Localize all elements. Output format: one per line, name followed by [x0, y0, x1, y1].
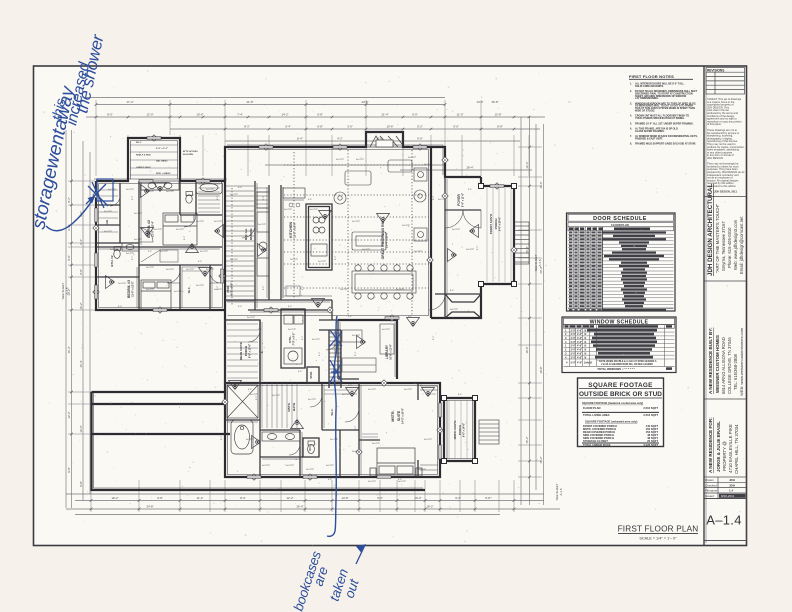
svg-text:6'-4": 6'-4"	[468, 189, 473, 191]
mudroom shelving	[226, 186, 254, 301]
svg-text:MSTR.: MSTR.	[391, 410, 395, 421]
svg-text:10'-6": 10'-6"	[386, 125, 393, 129]
svg-text:2x4 TYP: 2x4 TYP	[396, 289, 405, 291]
svg-text:8'-2": 8'-2"	[319, 351, 321, 356]
svg-text:8'-2": 8'-2"	[335, 255, 337, 260]
svg-text:9'-2": 9'-2"	[67, 197, 71, 203]
dimension number labels	[67, 100, 543, 509]
svg-text:Smyrna, Tennessee 37167: Smyrna, Tennessee 37167	[721, 221, 726, 271]
svg-text:2x4 TYP: 2x4 TYP	[200, 251, 209, 253]
svg-text:W.I.C.: W.I.C.	[330, 408, 334, 415]
svg-text:6'-0" x 14'-0": 6'-0" x 14'-0"	[463, 423, 466, 437]
svg-text:21'-8": 21'-8"	[246, 100, 253, 104]
svg-text:UTIL.: UTIL.	[288, 335, 292, 343]
svg-text:21'-4" x 26'-0": 21'-4" x 26'-0"	[386, 232, 389, 248]
sheet title: FIRST FLOOR PLAN	[618, 525, 699, 541]
svg-text:2x4 TYP: 2x4 TYP	[108, 189, 117, 191]
svg-text:12'-0": 12'-0"	[146, 113, 153, 117]
svg-text:7'-0" x 9'-2": 7'-0" x 9'-2"	[293, 333, 296, 346]
svg-text:8'-2": 8'-2"	[296, 455, 298, 460]
svg-text:10'-2": 10'-2"	[79, 302, 83, 309]
svg-text:6'-4": 6'-4"	[308, 199, 313, 201]
fireplace	[366, 132, 403, 147]
revisions box	[706, 68, 745, 95]
svg-text:MUDRM.: MUDRM.	[249, 228, 253, 240]
svg-text:STORAGE CLOSET: STORAGE CLOSET	[583, 439, 608, 443]
window symbols on walls	[95, 137, 504, 479]
svg-text:2x4 TYP: 2x4 TYP	[330, 439, 339, 441]
svg-text:6'-4": 6'-4"	[258, 329, 263, 331]
svg-text:JORGE & JULIE BRASIL: JORGE & JULIE BRASIL	[716, 421, 721, 472]
svg-text:15'-2": 15'-2"	[539, 456, 543, 463]
master tub	[231, 420, 253, 454]
svg-text:2x4 TYP: 2x4 TYP	[174, 291, 183, 293]
svg-text:6'-4": 6'-4"	[297, 137, 303, 141]
svg-text:6'-4": 6'-4"	[238, 187, 243, 189]
master vanity	[262, 432, 300, 441]
first floor notes block	[629, 74, 698, 146]
svg-text:TOTAL WINDOWS = * * * *: TOTAL WINDOWS = * * * * * *	[597, 367, 635, 371]
witness extension lines	[68, 100, 542, 512]
svg-text:Issued: Issued	[705, 494, 714, 498]
blue scribble over closet	[86, 182, 108, 208]
svg-text:* NOTE WHEN DOUBLE & A 2x10 AT: * NOTE WHEN DOUBLE & A 2x10 AT SPED HEAD…	[598, 360, 657, 363]
svg-text:2x4 TYP: 2x4 TYP	[404, 389, 413, 391]
door and window id diamonds	[93, 135, 517, 480]
svg-text:FOYER: FOYER	[457, 194, 461, 206]
svg-text:WEB: www.weisnercustomhomes.c: WEB: www.weisnercustomhomes.com	[739, 327, 744, 396]
sinks bedroom bath	[141, 181, 179, 190]
svg-text:JDH: JDH	[729, 478, 735, 482]
svg-text:2x4 TYP: 2x4 TYP	[214, 221, 223, 223]
svg-text:8'-2": 8'-2"	[477, 245, 479, 250]
svg-text:2x4 TYP: 2x4 TYP	[110, 249, 119, 251]
svg-text:DOOR SCHEDULE: DOOR SCHEDULE	[593, 216, 647, 222]
svg-text:Drawn: Drawn	[705, 478, 714, 482]
svg-text:LIBRARY: LIBRARY	[385, 344, 389, 359]
svg-text:3,026 SQFT: 3,026 SQFT	[643, 443, 658, 447]
svg-text:19'-8": 19'-8"	[539, 366, 543, 373]
WIC closet label blob	[136, 142, 171, 175]
svg-text:2x4 TYP: 2x4 TYP	[230, 194, 239, 196]
blue pen annotation layer	[28, 32, 365, 612]
svg-text:6'-4": 6'-4"	[198, 261, 203, 263]
svg-text:FINISHED & EAST KEPT.: FINISHED & EAST KEPT.	[635, 138, 663, 141]
svg-text:8'-2": 8'-2"	[132, 255, 134, 260]
svg-text:2x4 TYP: 2x4 TYP	[214, 289, 223, 291]
svg-text:12'-6": 12'-6"	[539, 181, 543, 188]
svg-text:6'-4": 6'-4"	[348, 316, 353, 318]
svg-text:2x4 TYP: 2x4 TYP	[368, 481, 377, 483]
svg-text:19'-8": 19'-8"	[525, 346, 529, 353]
svg-text:A NEW RESIDENCE FOR:: A NEW RESIDENCE FOR:	[708, 417, 713, 473]
svg-text:2x4 TYP: 2x4 TYP	[352, 451, 361, 453]
info table (drawn/checked/filename/issued)	[704, 477, 747, 499]
svg-text:24'-8": 24'-8"	[361, 100, 368, 104]
divider	[704, 398, 747, 400]
svg-text:2x4 TYP: 2x4 TYP	[352, 221, 361, 223]
svg-text:8'-2": 8'-2"	[132, 195, 134, 200]
svg-text:KITCHEN: KITCHEN	[289, 222, 293, 238]
svg-text:BATH: BATH	[292, 403, 296, 411]
svg-text:7'-4": 7'-4"	[237, 113, 243, 117]
svg-text:8'-2": 8'-2"	[433, 335, 435, 340]
svg-text:13'-2": 13'-2"	[111, 496, 118, 500]
dimension lines right	[520, 117, 522, 505]
svg-text:STOR.: STOR.	[310, 371, 313, 379]
svg-text:A-1.5: A-1.5	[559, 488, 563, 496]
svg-text:2x4 TYP: 2x4 TYP	[438, 199, 447, 201]
svg-text:36'-8": 36'-8"	[491, 100, 498, 104]
svg-text:A–1.4: A–1.4	[706, 513, 741, 528]
tub bath2	[196, 181, 222, 194]
svg-text:2x4 TYP: 2x4 TYP	[452, 229, 461, 231]
porch columns	[479, 184, 484, 189]
additional texture layer	[38, 70, 744, 542]
svg-text:11'-2" x 16'-8": 11'-2" x 16'-8"	[294, 222, 297, 238]
svg-text:2x4 TYP: 2x4 TYP	[310, 209, 319, 211]
svg-text:8'-2": 8'-2"	[263, 285, 265, 290]
small interior dim texts	[118, 187, 479, 481]
svg-text:12'-8": 12'-8"	[494, 113, 501, 117]
svg-text:YOUR OTHERS SPECIFICATION AT S: YOUR OTHERS SPECIFICATION AT SIDING.	[635, 117, 685, 120]
svg-text:18'-2": 18'-2"	[426, 505, 433, 509]
door schedule table	[567, 213, 676, 311]
svg-text:9'-2": 9'-2"	[455, 496, 461, 500]
svg-text:2x4 TYP: 2x4 TYP	[118, 283, 127, 285]
svg-text:2x4 TYP: 2x4 TYP	[186, 269, 195, 271]
svg-text:3.: 3.	[630, 102, 632, 105]
dimension lines bottom	[66, 493, 544, 495]
svg-text:WIDE OF STOOD.: WIDE OF STOOD.	[635, 109, 655, 112]
svg-text:FIRST FLOOR NOTES: FIRST FLOOR NOTES	[629, 74, 674, 79]
svg-text:2x4 TYP: 2x4 TYP	[466, 249, 475, 251]
svg-text:2 2x10-10 HEADER ROW DIA. ON S: 2 2x10-10 HEADER ROW DIA. ON SEE LEGEND	[601, 363, 653, 366]
kitchen counter detail	[284, 200, 332, 296]
svg-text:6'-4": 6'-4"	[328, 479, 333, 481]
svg-text:TEL: 615/368-2808: TEL: 615/368-2808	[733, 353, 738, 390]
svg-text:8'-2": 8'-2"	[441, 425, 443, 430]
svg-text:6'-4": 6'-4"	[79, 239, 83, 245]
wall inner face lines	[94, 141, 473, 489]
svg-text:6'-4": 6'-4"	[458, 394, 463, 396]
svg-text:2x4 TYP: 2x4 TYP	[286, 465, 295, 467]
svg-text:16'-4": 16'-4"	[67, 346, 71, 353]
wing top bath detail	[141, 190, 179, 262]
svg-text:2x4 TYP: 2x4 TYP	[418, 469, 427, 471]
svg-text:FRAMED WILD SUPPORT-LINED EACH: FRAMED WILD SUPPORT-LINED EACH SID AT ST…	[635, 143, 696, 146]
front porch steps	[479, 222, 529, 444]
svg-text:26'-4": 26'-4"	[296, 505, 303, 509]
svg-text:8'-8": 8'-8"	[67, 255, 71, 261]
svg-text:16'-4": 16'-4"	[79, 360, 83, 367]
svg-text:8'-2": 8'-2"	[244, 125, 250, 129]
svg-text:5.: 5.	[630, 122, 632, 125]
great room furniture	[334, 160, 427, 299]
svg-text:SOLID CORE MASONITE.: SOLID CORE MASONITE.	[635, 85, 664, 88]
svg-text:6'-4": 6'-4"	[298, 371, 303, 373]
dimension tick marks	[70, 103, 531, 510]
svg-text:MSTR.: MSTR.	[287, 402, 291, 411]
svg-text:Filename: Filename	[705, 489, 718, 493]
svg-text:2x4 TYP: 2x4 TYP	[414, 251, 423, 253]
svg-text:LAY DIMENSIONING.: LAY DIMENSIONING.	[635, 97, 659, 100]
svg-text:COLLEGE GROVE, TN 37046: COLLEGE GROVE, TN 37046	[727, 337, 732, 394]
long blue vertical line	[327, 316, 337, 536]
svg-text:TOTAL LIVING AREA: TOTAL LIVING AREA	[583, 413, 610, 417]
svg-text:JDH: JDH	[729, 483, 735, 487]
title block left border	[703, 66, 705, 546]
svg-text:GREAT RM./DINING RM.: GREAT RM./DINING RM.	[381, 221, 385, 260]
svg-text:Web: www.jdhdesign3.com: Web: www.jdhdesign3.com	[733, 219, 738, 270]
porch deck lines	[449, 188, 511, 459]
svg-text:6'-2" x 8'-0": 6'-2" x 8'-0"	[231, 283, 234, 296]
svg-text:BTH. #2: BTH. #2	[110, 255, 114, 267]
master shower	[227, 385, 258, 418]
svg-text:FLOOR PLAN: FLOOR PLAN	[583, 406, 601, 410]
svg-text:6'-4": 6'-4"	[248, 389, 253, 391]
door swing arcs	[110, 196, 481, 455]
svg-text:2x4 TYP: 2x4 TYP	[424, 439, 433, 441]
svg-text:A-1.5: A-1.5	[538, 259, 542, 267]
svg-text:JDH DESIGN.: JDH DESIGN.	[707, 156, 724, 160]
svg-text:2x4 TYP: 2x4 TYP	[318, 261, 327, 263]
svg-text:ATTIC ACCESS: ATTIC ACCESS	[183, 150, 198, 153]
svg-text:5'-2": 5'-2"	[417, 125, 423, 129]
svg-text:SQUARE FOOTAGE: SQUARE FOOTAGE	[588, 382, 653, 389]
svg-text:Email: jdhdesign@comcast.net: Email: jdhdesign@comcast.net	[739, 216, 744, 274]
divider	[704, 280, 747, 282]
square footage table	[578, 378, 664, 447]
svg-text:1.4: 1.4	[729, 489, 734, 493]
window schedule table	[562, 317, 676, 373]
svg-text:8'-2": 8'-2"	[302, 285, 304, 290]
svg-text:15'-2": 15'-2"	[525, 436, 529, 443]
closet rod lines	[98, 145, 378, 437]
svg-text:SUITE: SUITE	[397, 410, 401, 421]
svg-text:6'-8": 6'-8"	[317, 125, 323, 129]
svg-text:2x4 TYP: 2x4 TYP	[196, 221, 205, 223]
svg-text:24'-8": 24'-8"	[146, 505, 153, 509]
svg-text:REAR COV'D: REAR COV'D	[239, 342, 243, 359]
svg-text:3'-0": 3'-0"	[571, 362, 576, 365]
svg-text:W.C.: W.C.	[308, 445, 312, 451]
svg-text:OUTSIDE BRICK OR STUD: OUTSIDE BRICK OR STUD	[579, 391, 662, 398]
svg-text:14'-8": 14'-8"	[341, 496, 348, 500]
more scan speckle	[73, 97, 561, 518]
svg-text:2x4 TYP: 2x4 TYP	[104, 231, 113, 233]
svg-text:JDH DESIGN, 2011: JDH DESIGN, 2011	[714, 190, 737, 194]
svg-text:2x4 TYP: 2x4 TYP	[402, 225, 411, 227]
svg-text:FIRST FLOOR PLAN: FIRST FLOOR PLAN	[618, 525, 699, 534]
see sheet references	[61, 254, 563, 500]
svg-text:SCALE = 1/4" = 1'– 0": SCALE = 1/4" = 1'– 0"	[639, 537, 677, 541]
beds	[141, 213, 422, 476]
svg-text:20 SQFT: 20 SQFT	[647, 439, 658, 443]
dimension lines top	[66, 98, 560, 515]
svg-text:8/20-2011: 8/20-2011	[721, 494, 735, 498]
bath fixtures	[114, 181, 327, 454]
svg-text:14'-2" x 16'-0": 14'-2" x 16'-0"	[402, 408, 405, 424]
svg-text:2x4 TYP: 2x4 TYP	[247, 317, 256, 319]
svg-text:9'-0" x 11'-6": 9'-0" x 11'-6"	[462, 193, 465, 207]
A NEW RESIDENCE FOR rotated block	[708, 417, 739, 474]
svg-text:2x4 TYP: 2x4 TYP	[160, 251, 169, 253]
extra detail density layer	[48, 74, 733, 545]
svg-text:2x4 TYP: 2x4 TYP	[166, 269, 175, 271]
svg-text:2x4 TYP: 2x4 TYP	[340, 289, 349, 291]
svg-text:6'-4": 6'-4"	[238, 306, 243, 308]
svg-text:A NEW RESIDENCE BUILT BY:: A NEW RESIDENCE BUILT BY:	[708, 327, 713, 394]
svg-text:6814 ARNO ALLISONA ROAD: 6814 ARNO ALLISONA ROAD	[721, 337, 726, 394]
svg-text:GLASS SUPER FRAMING.: GLASS SUPER FRAMING.	[635, 130, 665, 133]
svg-text:6'-4": 6'-4"	[288, 306, 293, 308]
svg-text:9'-0": 9'-0"	[453, 125, 459, 129]
svg-text:6.: 6.	[630, 128, 632, 131]
svg-text:W.I.C.: W.I.C.	[136, 142, 142, 144]
svg-text:22x30 MIN.: 22x30 MIN.	[183, 154, 194, 156]
svg-text:2x4 TYP: 2x4 TYP	[134, 213, 143, 215]
copyright paragraph block (tiny scan text)	[707, 97, 745, 194]
svg-text:2x4 TYP: 2x4 TYP	[258, 224, 267, 226]
exterior walls	[92, 132, 515, 490]
svg-text:2x4 TYP: 2x4 TYP	[356, 159, 365, 161]
svg-text:2x4 TYP: 2x4 TYP	[336, 159, 345, 161]
svg-text:2x4 TYP: 2x4 TYP	[126, 189, 135, 191]
svg-text:FRAMED 10'-0" ALL 1ST. UNDER S: FRAMED 10'-0" ALL 1ST. UNDER SUPER FRAMI…	[635, 122, 694, 125]
svg-text:2x4 TYP: 2x4 TYP	[450, 309, 459, 311]
svg-text:9'-8": 9'-8"	[79, 481, 83, 487]
svg-text:8'-2": 8'-2"	[256, 395, 258, 400]
svg-text:8'-2": 8'-2"	[221, 435, 223, 440]
svg-text:2,516 SQFT: 2,516 SQFT	[643, 413, 658, 417]
svg-text:Checked: Checked	[705, 483, 717, 487]
svg-text:2x4 TYP: 2x4 TYP	[290, 259, 299, 261]
svg-text:2x4 TYP: 2x4 TYP	[312, 339, 321, 341]
svg-text:2x4 TYP: 2x4 TYP	[134, 239, 143, 241]
svg-text:2x4 TYP: 2x4 TYP	[408, 157, 417, 159]
svg-text:4'-6": 4'-6"	[577, 362, 582, 365]
svg-text:2x4 TYP: 2x4 TYP	[146, 289, 155, 291]
blue arrow from note to closet	[46, 199, 93, 231]
interior walls	[96, 177, 481, 477]
svg-text:2x4 TYP: 2x4 TYP	[230, 259, 239, 261]
svg-text:ROD + SHELF: ROD + SHELF	[156, 173, 171, 175]
svg-text:9'-0" x 5'-2": 9'-0" x 5'-2"	[156, 148, 168, 150]
interior wall echoes	[98, 179, 447, 475]
svg-text:6'-4": 6'-4"	[118, 306, 123, 308]
divider under copyright	[704, 196, 747, 198]
svg-text:21'-4": 21'-4"	[381, 113, 388, 117]
svg-text:6'-6": 6'-6"	[417, 137, 423, 141]
svg-text:8.: 8.	[630, 143, 632, 146]
svg-text:2x4 TYP: 2x4 TYP	[342, 394, 351, 396]
svg-text:2x4 TYP: 2x4 TYP	[398, 481, 407, 483]
svg-text:10'-6": 10'-6"	[196, 113, 203, 117]
svg-text:12'-6": 12'-6"	[525, 161, 529, 168]
svg-text:12'-0": 12'-0"	[67, 411, 71, 418]
svg-text:17'-4": 17'-4"	[126, 100, 133, 104]
dining table	[352, 271, 416, 293]
svg-text:PORCH: PORCH	[244, 346, 248, 356]
dashed ceiling/beam lines	[232, 150, 429, 315]
master closet strip	[256, 187, 438, 470]
A-1.4 sheet number box	[704, 499, 747, 541]
svg-text:2x4 TYP: 2x4 TYP	[206, 189, 215, 191]
svg-text:8'-8": 8'-8"	[497, 125, 503, 129]
svg-text:12'-0": 12'-0"	[79, 425, 83, 432]
svg-text:5'-4": 5'-4"	[285, 125, 291, 129]
svg-text:2x4 TYP: 2x4 TYP	[262, 465, 271, 467]
small arrow near taken out	[356, 545, 365, 564]
wc toilets	[308, 444, 315, 453]
svg-text:1.: 1.	[630, 83, 632, 86]
svg-text:2x4 TYP: 2x4 TYP	[250, 394, 259, 396]
library shelves	[342, 324, 394, 372]
svg-text:5'-4": 5'-4"	[377, 496, 383, 500]
svg-text:2x4 TYP: 2x4 TYP	[176, 229, 185, 231]
svg-text:10'-0": 10'-0"	[414, 496, 421, 500]
room labels	[106, 193, 502, 451]
svg-text:14'-6": 14'-6"	[476, 100, 483, 104]
bath2 sink	[122, 243, 139, 251]
svg-text:W.I.C.: W.I.C.	[188, 286, 191, 293]
svg-text:2x4 TYP: 2x4 TYP	[326, 465, 335, 467]
svg-text:5'-8": 5'-8"	[485, 496, 491, 500]
svg-text:of this plans: of this plans	[707, 122, 722, 126]
svg-text:4710 EAGLEVILLE PIKE: 4710 EAGLEVILLE PIKE	[728, 424, 733, 473]
svg-text:8'-8": 8'-8"	[79, 269, 83, 275]
scan speckle	[101, 134, 539, 506]
svg-text:9'-8": 9'-8"	[67, 467, 71, 473]
svg-text:11'-6" x 12'-2": 11'-6" x 12'-2"	[132, 281, 135, 297]
svg-text:11'-4": 11'-4"	[197, 496, 204, 500]
svg-text:2x4 TYP: 2x4 TYP	[284, 209, 293, 211]
sheet border frame	[34, 66, 747, 546]
svg-text:2x4 TYP: 2x4 TYP	[166, 191, 175, 193]
kitchen appliances	[257, 192, 269, 208]
tiny callout texts	[104, 157, 475, 483]
svg-text:2x4 TYP: 2x4 TYP	[368, 389, 377, 391]
svg-text:2x4 TYP: 2x4 TYP	[146, 267, 155, 269]
svg-text:8'-2": 8'-2"	[184, 235, 186, 240]
svg-text:2x4 TYP: 2x4 TYP	[424, 164, 433, 166]
floor plan group	[61, 98, 563, 515]
svg-text:2x4 TYP: 2x4 TYP	[246, 439, 255, 441]
svg-text:9'-8": 9'-8"	[157, 496, 163, 500]
svg-text:2x4 TYP: 2x4 TYP	[308, 399, 317, 401]
bedroom closet hatch	[198, 184, 297, 428]
svg-text:8'-2": 8'-2"	[302, 335, 304, 340]
svg-text:REVISIONS: REVISIONS	[707, 68, 724, 72]
svg-text:2x4 TYP: 2x4 TYP	[186, 195, 195, 197]
svg-text:8'-2": 8'-2"	[433, 195, 435, 200]
utility w/d	[284, 315, 293, 324]
svg-text:TOTAL UNDER ROOF: TOTAL UNDER ROOF	[583, 443, 611, 447]
master porch steps	[479, 420, 499, 444]
svg-text:8'-2": 8'-2"	[355, 351, 357, 356]
svg-text:7.: 7.	[630, 135, 632, 138]
svg-text:LIN.: LIN.	[106, 219, 109, 224]
svg-text:2,516 SQFT: 2,516 SQFT	[643, 406, 658, 410]
svg-text:8'-0": 8'-0"	[107, 113, 113, 117]
svg-text:28'-4": 28'-4"	[466, 166, 473, 170]
svg-text:14'-2": 14'-2"	[281, 113, 288, 117]
svg-text:2x4 TYP: 2x4 TYP	[154, 229, 163, 231]
svg-text:Phone: 615-405-0310: Phone: 615-405-0310	[727, 227, 732, 268]
svg-text:4.: 4.	[630, 115, 632, 118]
svg-text:4'-2": 4'-2"	[337, 137, 343, 141]
